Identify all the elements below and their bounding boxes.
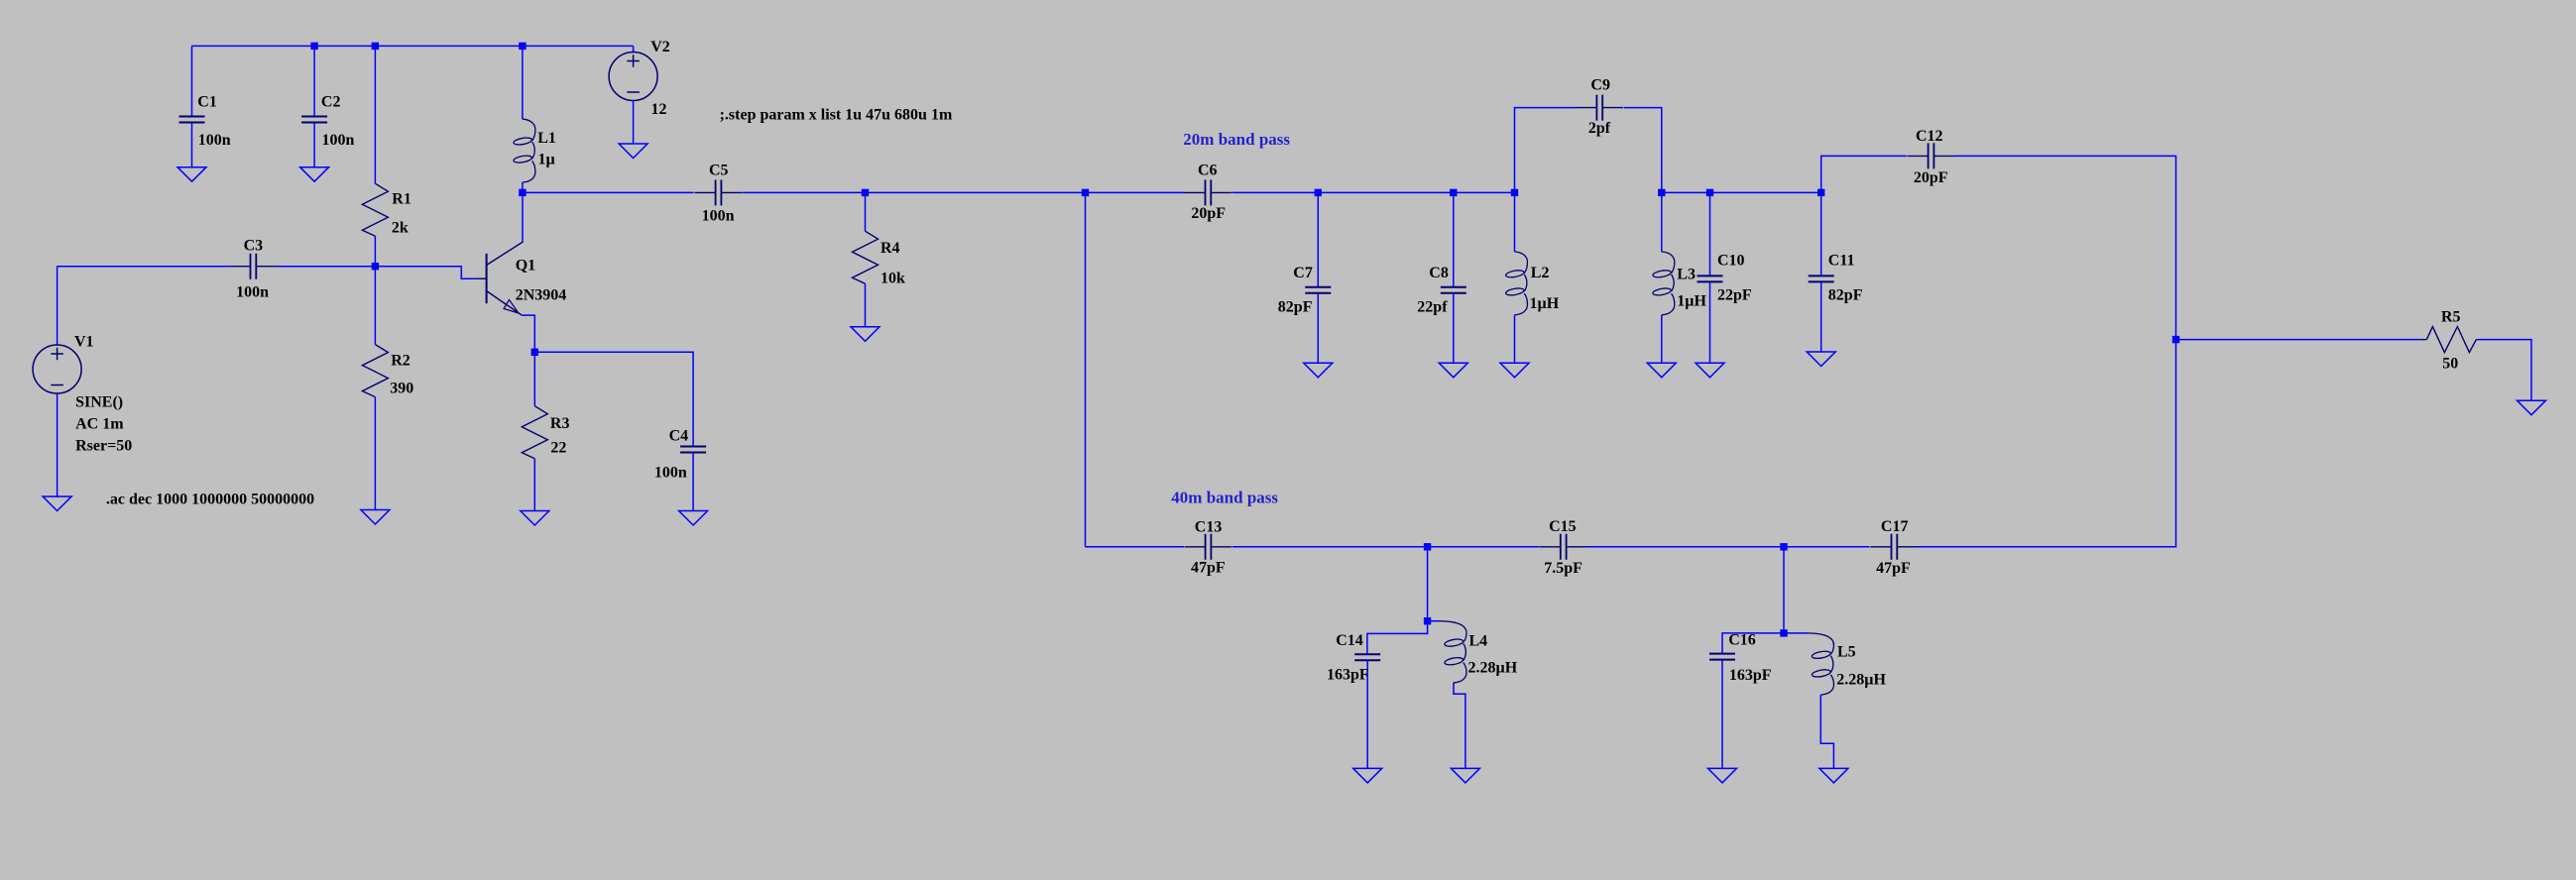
svg-text:100n: 100n [654,465,687,482]
junction 40m tank2 [1780,543,1787,550]
svg-text:2k: 2k [392,220,409,237]
svg-text:C3: C3 [244,238,264,255]
ground C4 [679,511,708,526]
wire C17 to output drop [1918,340,2176,547]
ground L2 [1500,363,1529,378]
svg-text:C17: C17 [1881,518,1909,535]
ground R2 [361,510,390,525]
svg-text:22pf: 22pf [1417,299,1448,316]
voltage source V1 [33,267,132,497]
capacitor C11 [1809,192,1863,352]
wire mid rail C5 to C6 [743,191,1185,193]
inductor L4 [1428,621,1518,769]
wire 40m drop [1085,192,1087,546]
junction R4 top [862,189,869,196]
svg-text:C11: C11 [1828,253,1855,270]
wire V1 to C3 [58,266,230,268]
svg-text:2N3904: 2N3904 [516,286,567,303]
ground C16 [1708,768,1737,783]
junction R1 top [372,43,379,50]
junction C10 [1706,189,1713,196]
svg-text:L5: L5 [1837,644,1856,661]
ground C7 [1304,363,1333,378]
ground L3 [1647,363,1676,378]
svg-text:50: 50 [2442,356,2458,373]
wire output node to R5 [2176,339,2421,341]
wire emitter node to C4 [534,352,693,446]
svg-text:163pF: 163pF [1327,667,1369,684]
junction tank2 lower [1780,629,1787,636]
svg-text:L4: L4 [1469,632,1488,649]
junction C7 [1315,189,1322,196]
wire base jog [375,267,474,279]
wire tank2 drop [1783,547,1785,633]
wire R5 to ground [2476,340,2531,401]
wire tank1 drop [1427,547,1429,621]
svg-text:C16: C16 [1728,632,1756,649]
capacitor C1 [179,46,231,166]
capacitor C13 [1185,518,1232,576]
wire V2 top drop [633,46,635,52]
svg-text:R2: R2 [391,353,410,370]
svg-text:C5: C5 [709,163,729,179]
inductor L5 [1784,633,1887,769]
ground L4 [1451,768,1479,783]
junction emitter node [531,349,538,356]
junction L1 top [519,43,526,50]
svg-text:47pF: 47pF [1191,560,1226,577]
junction tank1 lower [1424,617,1431,624]
capacitor C2 [301,46,354,166]
wire tank1 to C14 [1367,621,1428,654]
svg-text:Rser=50: Rser=50 [75,438,132,455]
wire C12 to output drop [1954,156,2176,339]
junction base node [372,263,379,270]
wire L3 to C11 [1662,191,1821,193]
junction 40m tap [1082,189,1089,196]
ground C1 [177,167,206,182]
capacitor C3 [229,238,277,301]
wire C6 to L2 [1232,191,1515,193]
junction 40m tank1 [1424,543,1431,550]
ground C2 [300,167,329,182]
ground C10 [1696,363,1724,378]
svg-text:7.5pF: 7.5pF [1544,560,1582,577]
svg-text:40m band pass: 40m band pass [1171,489,1278,507]
svg-text:V2: V2 [650,39,670,55]
wire C3 to base node [277,266,375,268]
capacitor C15 [1540,518,1587,577]
svg-text:R5: R5 [2441,309,2461,326]
wire C13 to C15 [1232,546,1539,548]
svg-text:R4: R4 [880,240,900,257]
svg-text:163pF: 163pF [1729,667,1772,684]
junction L1 bottom [519,189,526,196]
resistor R2 [362,267,413,510]
wire emitter to node [522,315,534,352]
capacitor C10 [1698,192,1752,363]
svg-text:Q1: Q1 [516,257,535,274]
resistor R3 [522,352,569,510]
svg-text:L2: L2 [1531,265,1550,281]
ground R5 [2517,400,2546,415]
junction C8 [1450,189,1457,196]
wire mid rail left [523,191,694,193]
svg-text:20pF: 20pF [1191,205,1226,222]
svg-text:82pF: 82pF [1278,299,1313,316]
ground V2 [619,144,647,159]
ground C11 [1807,352,1835,367]
svg-text:12: 12 [651,101,667,118]
wire C15 to C17 [1586,546,1869,548]
resistor R5 [2421,309,2477,373]
svg-text:;.step param x list 1u 47u 680: ;.step param x list 1u 47u 680u 1m [720,107,953,124]
wire collector [522,192,524,242]
svg-text:V1: V1 [74,333,94,350]
svg-text:100n: 100n [702,208,735,225]
svg-text:22: 22 [550,440,566,457]
ground L5 [1819,768,1848,783]
ground V1 [43,496,71,511]
capacitor C17 [1870,518,1918,577]
svg-text:22pF: 22pF [1717,287,1752,304]
transistor Q1 [474,242,566,315]
wire 40m row left [1086,546,1185,548]
capacitor C12 [1908,128,1955,186]
svg-text:2.28µH: 2.28µH [1468,660,1518,677]
junction L3 [1658,189,1665,196]
wire C11 riser to C12 [1821,156,1907,192]
inductor L2 [1505,192,1560,363]
capacitor C6 [1184,162,1231,221]
inductor L1 [514,46,556,192]
wire top supply rail [192,45,634,47]
svg-text:C7: C7 [1293,265,1313,281]
svg-text:C6: C6 [1198,162,1218,178]
capacitor C5 [695,163,743,225]
svg-text:20m band pass: 20m band pass [1183,130,1290,149]
svg-text:C12: C12 [1916,128,1943,145]
junction L2 [1511,189,1518,196]
svg-text:20pF: 20pF [1914,169,1948,186]
svg-text:C15: C15 [1549,518,1577,535]
svg-text:1µH: 1µH [1530,295,1560,312]
junction C11 [1817,189,1824,196]
svg-text:R1: R1 [392,190,411,207]
svg-text:C10: C10 [1717,253,1745,270]
junction output node [2172,336,2179,343]
svg-text:2pf: 2pf [1588,120,1611,137]
svg-text:C2: C2 [321,93,341,110]
svg-text:C1: C1 [197,93,217,110]
svg-text:82pF: 82pF [1828,287,1863,304]
svg-text:SINE(): SINE() [75,394,123,411]
capacitor C9 [1515,77,1662,193]
svg-text:C14: C14 [1336,632,1363,649]
capacitor C16 [1709,632,1772,769]
resistor R4 [853,192,906,326]
ground R3 [521,511,549,526]
svg-text:47pF: 47pF [1876,560,1911,577]
capacitor C7 [1278,192,1332,363]
svg-text:C13: C13 [1195,518,1223,535]
svg-text:C4: C4 [669,428,689,445]
ground C14 [1353,768,1382,783]
svg-text:100n: 100n [198,132,231,149]
svg-text:1µ: 1µ [538,151,555,167]
voltage source V2 [609,39,670,144]
junction C2 top [310,43,317,50]
capacitor C14 [1327,632,1380,769]
inductor L3 [1652,192,1706,363]
svg-text:AC 1m: AC 1m [75,416,124,433]
svg-text:100n: 100n [322,132,355,149]
svg-text:.ac dec 1000 1000000 50000000: .ac dec 1000 1000000 50000000 [106,492,314,508]
svg-text:L3: L3 [1677,266,1696,282]
svg-text:1µH: 1µH [1677,293,1706,310]
resistor R1 [362,46,410,266]
svg-text:2.28µH: 2.28µH [1836,672,1886,689]
svg-text:100n: 100n [236,283,269,300]
ground C8 [1439,363,1467,378]
svg-text:C9: C9 [1590,77,1610,94]
svg-text:L1: L1 [537,130,556,147]
ground R4 [851,327,879,342]
wire tank2 to C16 [1722,633,1784,653]
svg-text:10k: 10k [880,271,905,287]
capacitor C8 [1417,192,1466,363]
svg-text:R3: R3 [550,415,570,432]
capacitor C4 [654,428,706,511]
svg-text:C8: C8 [1429,265,1449,281]
svg-text:390: 390 [390,381,413,397]
